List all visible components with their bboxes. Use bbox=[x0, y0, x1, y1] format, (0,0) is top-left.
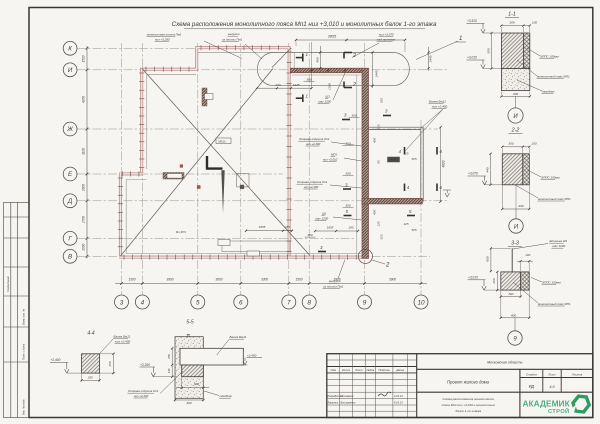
svg-text:Дата: Дата bbox=[395, 368, 404, 372]
svg-text:1600: 1600 bbox=[82, 184, 86, 191]
svg-text:Шпилька Ш1: Шпилька Ш1 bbox=[550, 239, 568, 243]
svg-text:Заказчик: Заказчик bbox=[328, 401, 339, 405]
svg-text:525: 525 bbox=[380, 234, 384, 239]
svg-text:низ +2,260: низ +2,260 bbox=[304, 185, 319, 189]
svg-text:125: 125 bbox=[403, 222, 408, 226]
svg-text:Д: Д bbox=[67, 198, 73, 205]
svg-text:2700: 2700 bbox=[82, 216, 86, 224]
door rect bottom bbox=[222, 241, 290, 252]
svg-text:300: 300 bbox=[508, 142, 513, 146]
svg-text:9: 9 bbox=[363, 299, 367, 306]
svg-text:низ +3,010: низ +3,010 bbox=[323, 158, 338, 162]
svg-text:1445: 1445 bbox=[293, 83, 300, 87]
svg-text:300: 300 bbox=[345, 172, 350, 176]
svg-text:250: 250 bbox=[108, 361, 112, 367]
svg-text:2-2: 2-2 bbox=[511, 128, 520, 134]
vert dim 400 at stadium bbox=[319, 46, 321, 70]
svg-text:125: 125 bbox=[390, 157, 395, 161]
label box center bbox=[216, 138, 231, 144]
svg-text:300: 300 bbox=[307, 233, 312, 237]
svg-text:4.10.23: 4.10.23 bbox=[394, 401, 403, 405]
svg-text:400: 400 bbox=[186, 401, 191, 405]
svg-text:Ш1: Ш1 bbox=[326, 95, 331, 99]
node callout 1 bbox=[416, 41, 458, 60]
svg-text:И: И bbox=[514, 225, 519, 231]
svg-text:РД: РД bbox=[529, 384, 534, 389]
svg-text:4.10.23: 4.10.23 bbox=[394, 394, 403, 398]
svg-text:100: 100 bbox=[525, 253, 530, 257]
svg-text:2: 2 bbox=[352, 82, 356, 88]
svg-text:1655: 1655 bbox=[327, 226, 334, 230]
svg-text:10: 10 bbox=[417, 299, 425, 306]
svg-text:Стадия: Стадия bbox=[526, 372, 537, 376]
svg-text:монолитная плита Пм1: монолитная плита Пм1 bbox=[147, 33, 182, 37]
svg-text:1500: 1500 bbox=[128, 278, 135, 282]
svg-text:шаг 1200: шаг 1200 bbox=[552, 244, 565, 248]
svg-text:250: 250 bbox=[167, 354, 171, 360]
bottom dim line bbox=[115, 282, 427, 284]
svg-text:7: 7 bbox=[287, 299, 291, 306]
svg-text:300: 300 bbox=[345, 142, 350, 146]
svg-text:+2,400: +2,400 bbox=[51, 358, 61, 362]
svg-text:Подп. и дата: Подп. и дата bbox=[22, 343, 26, 360]
svg-text:низ +2,400: низ +2,400 bbox=[432, 105, 448, 109]
svg-text:из плиты Пм1: из плиты Пм1 bbox=[222, 38, 243, 42]
svg-text:Листов: Листов bbox=[571, 372, 583, 376]
top dim 3855 bbox=[296, 39, 405, 41]
elevation on beam right bbox=[443, 189, 451, 191]
svg-text:газоблок: газоблок bbox=[220, 394, 233, 398]
svg-text:300: 300 bbox=[351, 114, 356, 118]
svg-text:ЭППС 100мм: ЭППС 100мм bbox=[540, 55, 559, 59]
building outline walls bbox=[142, 48, 289, 256]
svg-text:1000: 1000 bbox=[82, 244, 86, 251]
column marks bbox=[197, 185, 201, 189]
left dim line bbox=[86, 46, 88, 259]
small lintel bar top-left bbox=[202, 88, 207, 106]
label box right (dark) bbox=[388, 157, 400, 162]
svg-text:над проемом: над проемом bbox=[377, 38, 395, 42]
svg-text:3-3: 3-3 bbox=[511, 241, 519, 247]
svg-text:Ш1: Ш1 bbox=[322, 212, 327, 216]
svg-text:4.0: 4.0 bbox=[549, 385, 555, 389]
rebar outlet ticks bbox=[123, 255, 125, 260]
svg-text:И: И bbox=[68, 67, 73, 74]
wall inner faces bbox=[198, 51, 287, 53]
svg-text:Лист: Лист bbox=[354, 368, 363, 372]
svg-text:Московская область: Московская область bbox=[487, 361, 522, 365]
svg-text:АКАДЕМИК: АКАДЕМИК bbox=[523, 399, 571, 409]
node callout 2 bbox=[358, 249, 372, 263]
svg-text:1-1: 1-1 bbox=[508, 12, 516, 18]
black corner mark (stair) bbox=[207, 156, 223, 169]
svg-text:+3,510: +3,510 bbox=[467, 19, 477, 23]
svg-text:250: 250 bbox=[492, 278, 496, 284]
monolithic belt MP1 vertical at axis 9 bbox=[362, 68, 369, 258]
svg-text:Опорная подушка Оп1: Опорная подушка Оп1 bbox=[297, 180, 328, 184]
svg-text:+3,070: +3,070 bbox=[468, 172, 478, 176]
svg-text:140: 140 bbox=[167, 368, 171, 373]
svg-text:1: 1 bbox=[459, 36, 462, 42]
svg-text:балок 1-го этажа: балок 1-го этажа bbox=[455, 409, 481, 413]
svg-text:400: 400 bbox=[518, 204, 523, 208]
svg-text:125: 125 bbox=[377, 221, 381, 226]
svg-text:300: 300 bbox=[508, 292, 513, 296]
svg-text:525: 525 bbox=[411, 228, 416, 232]
svg-text:1445: 1445 bbox=[429, 55, 433, 62]
svg-text:Взам. инв. №: Взам. инв. № bbox=[22, 309, 26, 325]
monolithic belt MP1 horizontal at axis И bbox=[291, 68, 362, 73]
svg-text:И: И bbox=[513, 114, 518, 120]
small lintel bar at axis Е bbox=[163, 173, 184, 180]
svg-text:525: 525 bbox=[380, 98, 384, 103]
opening dims bottom bbox=[246, 230, 292, 232]
svg-text:400: 400 bbox=[513, 92, 518, 96]
svg-text:1200: 1200 bbox=[328, 83, 332, 90]
svg-text:№док: №док bbox=[367, 368, 375, 372]
svg-text:525: 525 bbox=[411, 157, 416, 161]
svg-text:К: К bbox=[68, 46, 72, 53]
svg-text:300: 300 bbox=[194, 382, 199, 386]
svg-text:600: 600 bbox=[486, 256, 490, 261]
svg-text:3300: 3300 bbox=[261, 278, 268, 282]
svg-text:3900: 3900 bbox=[166, 278, 173, 282]
svg-text:ЭППС 100мм: ЭППС 100мм bbox=[542, 281, 561, 285]
svg-text:125: 125 bbox=[403, 152, 408, 156]
svg-text:300: 300 bbox=[345, 204, 350, 208]
slab diagonals bbox=[142, 69, 310, 256]
svg-text:Балка Бм11: Балка Бм11 bbox=[230, 335, 247, 339]
svg-text:100: 100 bbox=[531, 142, 536, 146]
svg-text:4200: 4200 bbox=[82, 96, 86, 103]
svg-text:низ +3,260: низ +3,260 bbox=[155, 38, 170, 42]
svg-text:низ +2,260: низ +2,260 bbox=[306, 142, 321, 146]
svg-text:400: 400 bbox=[373, 138, 377, 143]
svg-text:Подпись: Подпись bbox=[378, 368, 390, 372]
svg-text:Ж: Ж bbox=[66, 126, 73, 133]
svg-text:шаг 1200: шаг 1200 bbox=[318, 100, 331, 104]
svg-text:В: В bbox=[68, 254, 72, 261]
monolithic belt MP1 horizontal at axis Д bbox=[362, 198, 422, 204]
svg-text:1500: 1500 bbox=[295, 278, 302, 282]
vert dim 1445 far right bbox=[428, 47, 430, 71]
svg-text:3900: 3900 bbox=[389, 278, 396, 282]
svg-text:185: 185 bbox=[348, 226, 353, 230]
svg-text:газоблок: газоблок bbox=[542, 90, 555, 94]
svg-text:1445: 1445 bbox=[375, 70, 379, 77]
axis circles (numbers) bbox=[115, 295, 129, 309]
svg-text:Схема расположения монолитного: Схема расположения монолитного пояса Мп1… bbox=[172, 21, 437, 28]
svg-text:250: 250 bbox=[87, 376, 93, 380]
svg-text:300: 300 bbox=[509, 21, 514, 25]
svg-text:Балка Бм11: Балка Бм11 bbox=[114, 335, 131, 339]
svg-text:низ +2,400: низ +2,400 bbox=[115, 340, 131, 344]
svg-text:низ +3,070: низ +3,070 bbox=[379, 33, 394, 37]
svg-text:Опорная подушка Оп1: Опорная подушка Оп1 bbox=[299, 137, 330, 141]
svg-text:Схема расположения монолитного: Схема расположения монолитного bbox=[443, 397, 495, 401]
svg-text:Проект жилого дома: Проект жилого дома bbox=[447, 380, 490, 385]
svg-text:выпуски: выпуски bbox=[228, 32, 240, 36]
svg-text:4-4: 4-4 bbox=[87, 331, 94, 337]
svg-text:Балка Бм11: Балка Бм11 bbox=[429, 100, 446, 104]
svg-text:5-5: 5-5 bbox=[186, 320, 193, 326]
svg-text:4800: 4800 bbox=[441, 160, 445, 167]
axis circles (letters) bbox=[63, 41, 77, 55]
svg-text:+3,010: +3,010 bbox=[467, 56, 477, 60]
svg-text:2: 2 bbox=[385, 263, 390, 269]
svg-text:3: 3 bbox=[120, 299, 124, 306]
svg-text:200: 200 bbox=[274, 83, 280, 87]
svg-text:Изм: Изм bbox=[331, 368, 336, 372]
svg-text:100: 100 bbox=[532, 21, 537, 25]
svg-text:монолитный пояс МП1: монолитный пояс МП1 bbox=[538, 302, 571, 306]
svg-text:пояса Мп1 низ +3,010 и монолит: пояса Мп1 низ +3,010 и монолитных bbox=[442, 403, 496, 407]
svg-text:СТРОЙ: СТРОЙ bbox=[548, 407, 570, 415]
svg-text:низ +2,260: низ +2,260 bbox=[134, 394, 149, 398]
svg-text:6: 6 bbox=[239, 299, 243, 306]
svg-text:400: 400 bbox=[373, 210, 377, 215]
vert dim 1445 right of corner bbox=[372, 52, 374, 88]
svg-text:300: 300 bbox=[306, 78, 311, 82]
svg-text:Колич: Колич bbox=[342, 368, 350, 372]
svg-text:выпуски: выпуски bbox=[329, 279, 341, 283]
svg-text:Лист: Лист bbox=[547, 372, 556, 376]
svg-text:монолитный пояс МП1: монолитный пояс МП1 bbox=[537, 75, 570, 79]
svg-text:3000: 3000 bbox=[215, 278, 222, 282]
svg-text:Москвенко: Москвенко bbox=[341, 394, 355, 398]
svg-text:Вишкуренко: Вишкуренко bbox=[341, 401, 356, 405]
svg-text:185: 185 bbox=[285, 225, 290, 229]
svg-text:+2,400: +2,400 bbox=[247, 353, 257, 357]
dim 1445/200 below И belt bbox=[257, 87, 312, 89]
svg-text:Согласовано: Согласовано bbox=[6, 276, 10, 292]
svg-text:Инв. № подл.: Инв. № подл. bbox=[22, 399, 26, 415]
svg-text:+2,260: +2,260 bbox=[140, 363, 150, 367]
beams Бм11 square bbox=[369, 126, 424, 128]
svg-text:4: 4 bbox=[141, 299, 145, 306]
svg-text:500: 500 bbox=[486, 48, 490, 53]
svg-text:ЭППС 100мм: ЭППС 100мм bbox=[541, 176, 560, 180]
svg-text:1655: 1655 bbox=[259, 225, 266, 229]
svg-text:Опорная подушка Оп1: Опорная подушка Оп1 bbox=[128, 389, 159, 393]
svg-text:Бл 3П1: Бл 3П1 bbox=[176, 230, 186, 234]
svg-text:3855: 3855 bbox=[328, 34, 337, 38]
title block bbox=[327, 354, 593, 418]
svg-text:монолитный пояс МП1: монолитный пояс МП1 bbox=[538, 197, 571, 201]
svg-text:400: 400 bbox=[315, 57, 319, 62]
svg-text:из плиты Пм1: из плиты Пм1 bbox=[323, 285, 344, 289]
svg-text:3100: 3100 bbox=[82, 148, 86, 155]
section cut marks bbox=[302, 54, 304, 62]
svg-text:1500: 1500 bbox=[82, 55, 86, 62]
svg-text:440: 440 bbox=[485, 167, 489, 172]
svg-text:2: 2 bbox=[352, 53, 356, 59]
svg-text:+3,010: +3,010 bbox=[468, 276, 478, 280]
svg-text:МП1: МП1 bbox=[331, 153, 338, 157]
svg-text:3Л100: 3Л100 bbox=[218, 139, 226, 143]
svg-text:5: 5 bbox=[196, 299, 200, 306]
svg-text:8: 8 bbox=[307, 299, 311, 306]
left attribute table bbox=[4, 203, 30, 418]
opening stadium (lintel zone) bbox=[257, 52, 409, 85]
axis grid bbox=[121, 43, 123, 295]
svg-text:125: 125 bbox=[377, 124, 381, 129]
svg-text:400: 400 bbox=[511, 313, 516, 317]
svg-text:95: 95 bbox=[377, 160, 381, 164]
dim 4800 right bbox=[440, 127, 442, 201]
stud bbox=[511, 248, 513, 282]
svg-text:шаг 1200: шаг 1200 bbox=[315, 217, 328, 221]
